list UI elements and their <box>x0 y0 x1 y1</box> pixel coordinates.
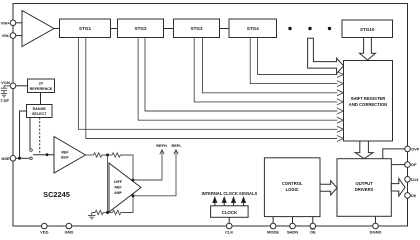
wire STG3R to L4 <box>203 38 338 93</box>
hollow arrow control logic to output drivers <box>320 181 337 195</box>
arrowhead L5 <box>337 99 343 105</box>
arrowhead L2 <box>337 72 343 78</box>
clock box <box>211 206 249 218</box>
ref buf amp <box>54 137 86 174</box>
wire SHDN up to control logic <box>292 217 294 226</box>
stage output bus wires to shift register <box>78 38 337 139</box>
hollow arrow STG10 down to shift register <box>360 38 376 61</box>
svg-text:DGND: DGND <box>370 230 382 235</box>
svg-text:SHDN: SHDN <box>287 230 298 235</box>
arrowhead L8 <box>337 126 343 132</box>
pin D13 <box>405 177 419 183</box>
wire REFL <box>133 150 178 196</box>
arrowhead L3 <box>337 81 343 87</box>
wire STG1-STG2 <box>111 28 118 30</box>
switch contact lower <box>30 157 33 160</box>
wire REFH <box>133 150 164 180</box>
svg-text:REFH: REFH <box>156 143 167 148</box>
svg-text:AND CORRECTION: AND CORRECTION <box>349 102 387 107</box>
range select box <box>27 105 53 118</box>
junction node on NSE wire <box>18 157 21 160</box>
resistor R3 <box>95 210 103 214</box>
svg-text:INTERNAL CLOCK SIGNALS: INTERNAL CLOCK SIGNALS <box>202 191 258 196</box>
wire OVF <box>383 149 405 159</box>
svg-text:CONTROL: CONTROL <box>282 181 303 186</box>
clock arrow 1 <box>214 202 216 206</box>
wire reference to range select <box>40 93 42 105</box>
control logic box <box>264 158 320 217</box>
svg-text:LOGIC: LOGIC <box>286 187 299 192</box>
pin VCM <box>1 80 16 89</box>
wire NSE pin to switch contact <box>16 157 30 159</box>
dot 1 <box>288 27 291 30</box>
svg-text:STG1: STG1 <box>79 26 91 31</box>
svg-text:VIN-: VIN- <box>2 33 11 38</box>
pin OF <box>405 162 417 168</box>
svg-text:STG10: STG10 <box>360 27 375 32</box>
svg-text:OVF: OVF <box>411 147 420 152</box>
svg-text:SHIFT REGISTER: SHIFT REGISTER <box>351 96 386 101</box>
svg-text:VCM: VCM <box>1 80 11 85</box>
wire range select to NSE node <box>20 111 27 158</box>
svg-text:D0: D0 <box>411 193 417 198</box>
pin GND <box>64 223 73 234</box>
hollow L arrow from dot stages into shift register <box>308 38 344 73</box>
svg-text:OF: OF <box>411 162 417 167</box>
stage STG3 <box>174 19 220 38</box>
pin MODE <box>267 223 279 234</box>
svg-text:AMP: AMP <box>114 191 122 195</box>
wire VCM to reference <box>16 85 28 87</box>
hollow arrow output drivers to data pins <box>391 179 405 197</box>
2V reference box <box>28 79 55 93</box>
wire amp out to STG1 <box>54 28 60 30</box>
clock arrow 2 <box>223 202 225 206</box>
arrowhead L6 <box>337 108 343 114</box>
wire MODE up to control logic <box>272 217 274 226</box>
pin D0 <box>405 193 417 199</box>
diff ref amp <box>109 163 141 212</box>
center tap wire <box>107 155 109 213</box>
svg-text:D13: D13 <box>411 177 419 182</box>
output drivers box <box>337 159 391 217</box>
wire OE up to control logic <box>312 217 314 226</box>
pin OVF <box>405 146 420 152</box>
shift register and correction box <box>344 61 393 142</box>
svg-text:2V: 2V <box>39 82 44 86</box>
switch contact upper <box>30 149 33 152</box>
svg-text:CLK: CLK <box>225 230 233 235</box>
wire STG1R to L9 <box>86 38 338 139</box>
internal clock signal arrows <box>213 197 246 206</box>
top reference rail with resistors <box>86 153 134 180</box>
pin DGND <box>370 223 382 234</box>
svg-text:REF: REF <box>61 151 69 155</box>
svg-text:STG3: STG3 <box>191 26 203 31</box>
svg-text:STG2: STG2 <box>135 26 147 31</box>
wire VIN+ to amp <box>16 22 22 24</box>
dot 3 <box>328 27 331 30</box>
clock arrow 3 <box>233 202 235 206</box>
svg-text:REFL: REFL <box>171 143 182 148</box>
svg-text:VDD: VDD <box>40 230 49 235</box>
clock arrow 4 <box>243 202 245 206</box>
resistor R1 <box>94 153 102 157</box>
bottom reference rail with resistors <box>88 196 133 219</box>
wire STG2R to L6 <box>145 38 337 112</box>
arrowhead L4 <box>337 90 343 96</box>
svg-text:REF: REF <box>115 186 123 190</box>
stage STG10 <box>342 20 393 38</box>
pin SHDN <box>287 223 298 234</box>
wire DGND up to output drivers <box>375 216 377 226</box>
hollow arrow shift register down to output drivers <box>355 141 373 159</box>
node on top rail <box>106 154 109 157</box>
wire STG3L to L5 <box>194 38 337 102</box>
wire range select to switch contact <box>29 118 31 149</box>
node VCM wiring: 2V reference <box>16 86 54 159</box>
svg-text:OE: OE <box>310 230 316 235</box>
input buffer amp A1 <box>22 11 54 47</box>
wire STG1L to L8 <box>78 38 337 130</box>
junction node on ref buf input <box>46 153 49 156</box>
wire STG4L to L3 <box>250 38 337 84</box>
pin NSE <box>1 156 15 162</box>
pin CLK <box>225 223 233 234</box>
external cap on VCM <box>1 86 13 97</box>
svg-text:DIFF: DIFF <box>114 180 123 184</box>
pin VIN+ <box>1 20 16 26</box>
svg-text:GND: GND <box>64 230 73 235</box>
wire STG3-STG4 <box>220 28 230 30</box>
svg-text:SC2245: SC2245 <box>43 190 70 199</box>
svg-text:STG4: STG4 <box>247 26 259 31</box>
pin VDD <box>40 223 49 234</box>
svg-text:REFERENCE: REFERENCE <box>30 87 53 91</box>
dot 2 <box>308 27 311 30</box>
svg-text:DRIVERS: DRIVERS <box>355 187 374 192</box>
node on bottom rail <box>106 211 109 214</box>
wire OF <box>391 164 404 166</box>
wire switch common to ref buf <box>33 154 54 156</box>
ground <box>91 213 93 216</box>
node REFL tap <box>132 194 135 197</box>
ellipsis dots <box>288 27 331 30</box>
wire CLK up to clock <box>228 217 230 226</box>
arrowhead L9 <box>337 136 343 142</box>
pin OE <box>310 223 316 234</box>
svg-text:OUTPUT: OUTPUT <box>355 181 373 186</box>
wire STG2L to L7 <box>138 38 337 121</box>
svg-text:VIN+: VIN+ <box>1 20 11 25</box>
dashed control line to switch <box>39 118 41 153</box>
wire STG4R to L2 <box>258 38 338 75</box>
svg-text:BUF: BUF <box>61 156 69 160</box>
resistor R2 <box>112 153 120 157</box>
svg-text:RANGE: RANGE <box>33 107 47 111</box>
node REFH tap <box>132 179 135 182</box>
wire STG2-STG3 <box>164 28 174 30</box>
pin VIN- <box>2 33 16 39</box>
svg-text:CLOCK: CLOCK <box>222 210 238 215</box>
stage STG1 <box>60 19 111 38</box>
wire VIN- to amp <box>16 35 22 37</box>
svg-text:MODE: MODE <box>267 230 279 235</box>
resistor R4 <box>113 210 121 214</box>
stage STG4 <box>229 19 277 38</box>
svg-text:SELECT: SELECT <box>32 112 47 116</box>
arrowhead L7 <box>337 117 343 123</box>
svg-text:NSE: NSE <box>1 156 10 161</box>
svg-text:2.2µF: 2.2µF <box>1 99 10 103</box>
stage STG2 <box>118 19 164 38</box>
